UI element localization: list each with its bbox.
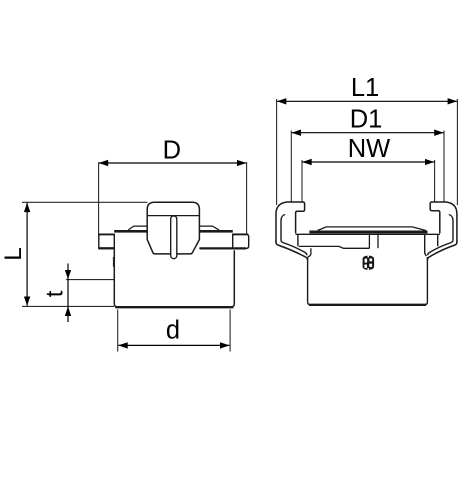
seam mark on body left edge: [113, 257, 115, 267]
right claw lug outer edge: [427, 241, 457, 260]
dimension NW line: [302, 161, 434, 163]
knob stem: [171, 216, 177, 259]
plate plateau: [318, 227, 426, 231]
dimension L1 extension left: [276, 99, 278, 205]
body top-left step: [308, 248, 311, 257]
dimension D line: [99, 162, 246, 164]
plate band (dark): [309, 231, 427, 234]
dimension D extension line right: [246, 162, 248, 234]
dimension d line: [118, 344, 229, 346]
svg-text:NW: NW: [348, 135, 390, 163]
flange underside thick line (knob to right tab): [199, 247, 246, 249]
body outline: [114, 249, 234, 307]
dimension D1 extension left: [290, 131, 292, 202]
flange plateau: [128, 226, 219, 230]
svg-text:d: d: [166, 317, 180, 345]
dimension L1 extension right: [456, 99, 458, 205]
right claw inner contour: [428, 215, 453, 256]
left tab: [99, 234, 115, 248]
dimension d extension left: [117, 310, 119, 352]
right claw hook outer contour: [430, 202, 457, 242]
dimension L extension bottom / t bottom (collinear with body bottom): [22, 305, 114, 307]
right tab thick top: [233, 233, 249, 235]
body bottom thick: [309, 304, 426, 306]
left tab thick bottom: [99, 247, 115, 249]
body outline: [308, 257, 428, 305]
logo mark: [363, 256, 375, 270]
dimension t upper arrow (points down): [67, 264, 69, 280]
dimension t lower arrow (points up): [67, 307, 69, 322]
svg-text:L: L: [0, 247, 27, 261]
dimension L line: [26, 203, 28, 306]
stem tab: [368, 234, 370, 249]
dimension D1 extension right: [443, 131, 445, 202]
left claw arm lower stub: [297, 234, 299, 246]
collar top line: [296, 233, 441, 235]
right claw arm lower stub: [437, 234, 439, 246]
body bottom thick: [115, 306, 233, 308]
svg-text:L1: L1: [351, 74, 379, 102]
dimension L1 line: [277, 100, 457, 102]
left claw inner contour: [281, 215, 307, 256]
knob: [147, 202, 199, 254]
collar right edge: [425, 234, 427, 256]
svg-text:D1: D1: [350, 106, 383, 134]
collar bottom line: [299, 246, 370, 248]
dimension NW extension right: [434, 160, 436, 202]
dimension D extension line left: [98, 162, 100, 234]
left claw hook outer contour: [276, 202, 305, 242]
flange band (dark): [114, 230, 233, 233]
left tab thick top: [98, 233, 114, 235]
left claw lug outer edge: [276, 241, 308, 260]
knob inner line: [148, 215, 199, 217]
dimension NW extension left: [301, 160, 303, 202]
svg-text:t: t: [42, 290, 69, 297]
dimension t extension line: [66, 279, 114, 281]
dimension t span line: [67, 279, 69, 306]
dimension d extension right: [229, 310, 231, 352]
svg-text:D: D: [163, 137, 181, 165]
dimension D1 line: [292, 132, 444, 134]
right tab: [233, 234, 249, 248]
dimension L extension top: [22, 201, 148, 203]
